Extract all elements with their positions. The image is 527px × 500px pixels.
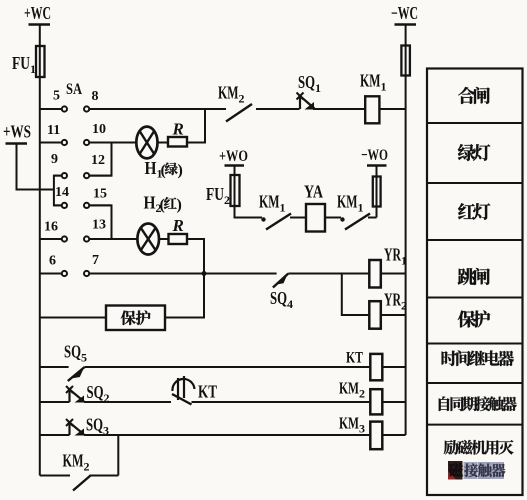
wire: KM2 coil to -WC bus: [382, 401, 405, 403]
svg-text:1: 1: [358, 201, 364, 215]
svg-text:4: 4: [287, 297, 293, 311]
svg-text:6: 6: [49, 254, 56, 269]
wire: SA left bracket joining rows 9/14: [54, 176, 62, 206]
svg-text:2: 2: [84, 460, 90, 474]
wire: bracket to lamp H2: [112, 238, 138, 240]
svg-text:14: 14: [55, 185, 69, 200]
svg-text:FU: FU: [206, 184, 224, 204]
svg-text:YR: YR: [384, 245, 402, 265]
wire: protection box up to junction: [165, 274, 204, 318]
wire: YR2 to -WC bus: [381, 314, 406, 316]
wire: bus to protection box: [40, 317, 106, 319]
svg-text:KM: KM: [63, 451, 84, 471]
svg-text:1: 1: [315, 81, 321, 95]
svg-text:KM: KM: [337, 192, 358, 212]
legend divider 3: [427, 239, 523, 241]
svg-text:R: R: [172, 120, 184, 139]
svg-text:11: 11: [47, 123, 60, 138]
svg-text:H: H: [144, 193, 156, 213]
coil KM1: [365, 96, 379, 123]
svg-text:2: 2: [104, 391, 110, 405]
terminal -WO: [361, 147, 388, 166]
legend: red lamp: [458, 203, 490, 220]
legend divider 7: [427, 424, 523, 426]
limit switch SQ3 (normally-closed): [66, 419, 370, 436]
svg-text:2: 2: [239, 92, 245, 106]
svg-text:+WC: +WC: [24, 3, 51, 23]
wire: YR1 to -WC bus: [381, 273, 406, 275]
legend: tripping circuit: [458, 268, 490, 285]
wire: +WS feed to SA bracket 14: [17, 144, 54, 190]
SA contacts 9-12 (row 3): [54, 173, 112, 178]
box: protection relay: [106, 306, 165, 331]
resistor R (H2 branch): [169, 234, 188, 244]
coil YR2: [369, 301, 381, 329]
svg-text:2: 2: [359, 387, 365, 401]
SA contacts 5-8 (row 1): [40, 106, 226, 111]
svg-text:3: 3: [103, 424, 109, 438]
wire: branch down to YR2: [342, 274, 370, 316]
svg-text:SQ: SQ: [87, 382, 104, 402]
time-delay contact KT: [172, 376, 370, 405]
svg-text:1: 1: [381, 80, 387, 94]
SA contacts 14-15 (row 4): [54, 203, 112, 208]
legend: protection: [458, 310, 490, 327]
wire: right bus -WC vertical: [405, 25, 407, 436]
wire: resistor H2 down to row-6 junction: [187, 239, 204, 274]
wire: left bus +WC vertical: [39, 25, 41, 476]
svg-text:FU: FU: [12, 53, 30, 73]
fuse FU2: [206, 175, 240, 207]
coil KM3: [370, 422, 382, 450]
terminal +WS: [3, 122, 31, 144]
legend divider 1: [427, 122, 523, 124]
svg-text:5: 5: [81, 351, 87, 365]
svg-text:1: 1: [30, 62, 36, 76]
svg-text:): ): [178, 162, 183, 179]
wire: KT coil to -WC bus: [382, 366, 405, 368]
fuse on -WO line: [373, 177, 381, 207]
wire: resistor to row-1 junction: [187, 109, 205, 143]
legend divider 2: [427, 182, 523, 184]
svg-text:13: 13: [92, 218, 106, 233]
legend: field-suppression contactor line 1: [444, 440, 514, 455]
wire: bus to SQ5: [40, 366, 69, 368]
terminal +WO: [219, 148, 248, 166]
wire: YA branch up to -WO: [376, 166, 378, 218]
svg-text:9: 9: [51, 152, 58, 167]
svg-text:KT: KT: [198, 382, 217, 402]
fuse FU1: [12, 46, 45, 77]
svg-text:2: 2: [401, 299, 407, 313]
label H1 (green): [145, 158, 183, 181]
legend column frame: [427, 69, 523, 496]
terminal +WC: [24, 3, 51, 25]
wire: bus to SQ3: [40, 434, 70, 436]
legend divider 5: [427, 343, 523, 345]
svg-text:1: 1: [280, 201, 286, 215]
junction node at row 6: [202, 271, 207, 276]
svg-text:16: 16: [44, 220, 58, 235]
legend: green lamp: [458, 144, 490, 161]
SA contacts 11-10 (row 2): [40, 140, 137, 145]
svg-text:7: 7: [92, 253, 99, 268]
svg-text:+WS: +WS: [3, 122, 31, 142]
legend divider 4: [427, 297, 523, 299]
svg-text:KT: KT: [346, 350, 363, 367]
legend: closing circuit: [458, 87, 490, 104]
svg-text:KM: KM: [339, 414, 359, 433]
svg-text:R: R: [172, 216, 184, 235]
coil YA: [306, 204, 325, 232]
coil YR1: [369, 260, 381, 288]
svg-text:+WO: +WO: [219, 148, 248, 165]
resistor R (H1 branch): [168, 137, 187, 147]
legend: auto-synchronizing contactor: [439, 396, 517, 411]
wire: KM3 coil to -WC bus: [382, 434, 405, 436]
svg-text:KM: KM: [218, 83, 239, 103]
lamp H2 (red): [137, 224, 159, 255]
svg-text:(: (: [160, 197, 165, 214]
svg-text:KM: KM: [339, 379, 359, 398]
wire: SA right bracket joining rows 15/13: [89, 205, 111, 239]
legend: time relay: [442, 350, 514, 366]
terminal -WC: [391, 3, 418, 25]
wire: bus to KM2 contact (bottom): [40, 475, 70, 477]
svg-text:2: 2: [224, 193, 230, 207]
legend divider 6: [427, 382, 523, 384]
svg-text:): ): [177, 197, 182, 214]
svg-text:−WO: −WO: [361, 147, 388, 164]
limit switch SQ4 (normally-open): [273, 273, 369, 287]
svg-text:KM: KM: [259, 192, 280, 212]
label H2 (red): [144, 193, 182, 216]
contact KM1 (left of YA): [261, 214, 306, 230]
svg-text:−WC: −WC: [391, 3, 418, 23]
lamp H1 (green): [136, 127, 157, 159]
svg-text:12: 12: [91, 153, 105, 168]
svg-text:KM: KM: [360, 71, 381, 91]
svg-text:8: 8: [92, 89, 99, 104]
contact KM1 (right of YA): [325, 214, 377, 230]
wire: lamp H2 to resistor: [159, 238, 168, 240]
wire: +WO drop through FU2: [235, 166, 263, 218]
limit switch SQ2 (normally-closed): [66, 386, 171, 403]
wire: lamp H1 to resistor: [158, 142, 169, 144]
coil KM2: [370, 389, 382, 414]
wire: SA right bracket joining rows 10/12: [89, 143, 111, 176]
legend: field-suppression contactor line 2 (watermark overlay): [448, 461, 505, 480]
contact KM2 (normally-open, bottom): [73, 476, 118, 491]
svg-text:5: 5: [53, 89, 60, 104]
svg-text:SA: SA: [66, 81, 82, 98]
svg-text:SQ: SQ: [86, 415, 103, 435]
contact KM2 (normally-open, row 1): [226, 104, 300, 122]
coil KT: [370, 354, 382, 380]
svg-text:SQ: SQ: [298, 72, 315, 92]
limit switch SQ5 (normally-open): [68, 367, 371, 381]
limit switch SQ1 (normally-closed): [297, 93, 366, 110]
SA contacts 6-7 (row 6): [40, 271, 277, 276]
svg-text:SQ: SQ: [270, 288, 287, 308]
SA contacts 16-13 (row 5): [40, 236, 112, 241]
svg-text:YR: YR: [384, 290, 402, 310]
svg-text:15: 15: [93, 187, 107, 202]
svg-text:(: (: [161, 162, 166, 179]
svg-text:YA: YA: [304, 182, 323, 202]
svg-text:3: 3: [359, 422, 365, 436]
fuse on -WC line: [401, 46, 410, 76]
wire: bus to SQ2: [40, 401, 70, 403]
svg-text:10: 10: [92, 122, 106, 137]
wire: KM2 branch up to SQ3 row: [117, 435, 119, 476]
svg-text:1: 1: [401, 254, 407, 268]
svg-text:SQ: SQ: [64, 342, 81, 362]
svg-text:H: H: [145, 158, 157, 178]
wire: KM1 coil to -WC bus: [379, 108, 405, 110]
